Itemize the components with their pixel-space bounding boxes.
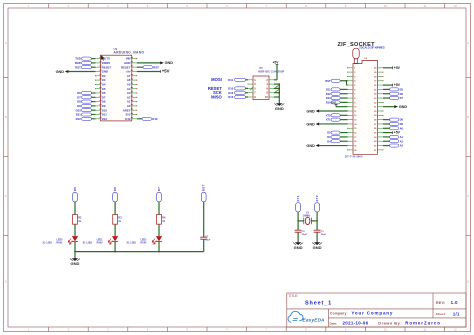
svg-text:REV:: REV: bbox=[436, 301, 446, 305]
svg-text:+5V: +5V bbox=[394, 131, 401, 135]
svg-text:D5: D5 bbox=[73, 187, 77, 192]
svg-text:ZIF-T-40-3900: ZIF-T-40-3900 bbox=[345, 156, 363, 159]
svg-text:D11: D11 bbox=[228, 78, 233, 82]
svg-text:1/1: 1/1 bbox=[453, 311, 460, 316]
svg-text:1.0: 1.0 bbox=[451, 300, 458, 305]
svg-text:U2: U2 bbox=[364, 58, 368, 60]
svg-text:EasyEDA: EasyEDA bbox=[303, 317, 326, 322]
svg-text:B: B bbox=[5, 115, 7, 119]
svg-text:+5V: +5V bbox=[331, 101, 336, 105]
svg-text:2: 2 bbox=[68, 4, 70, 8]
svg-text:10uF: 10uF bbox=[205, 239, 211, 241]
svg-text:D3: D3 bbox=[327, 135, 331, 139]
svg-text:D13: D13 bbox=[125, 117, 131, 121]
svg-text:HDR-IDC-2.54-2X5P: HDR-IDC-2.54-2X5P bbox=[258, 69, 284, 73]
svg-text:RST: RST bbox=[202, 184, 206, 191]
svg-text:+5V: +5V bbox=[394, 66, 401, 70]
svg-text:D: D bbox=[467, 279, 469, 283]
svg-text:9: 9 bbox=[345, 4, 347, 8]
svg-text:GND: GND bbox=[294, 245, 303, 250]
svg-text:1k: 1k bbox=[118, 220, 121, 223]
svg-text:11: 11 bbox=[423, 4, 426, 8]
svg-text:22pF: 22pF bbox=[302, 234, 308, 236]
svg-text:C1: C1 bbox=[205, 236, 209, 238]
svg-text:RST: RST bbox=[325, 79, 331, 83]
svg-text:+5V: +5V bbox=[162, 69, 170, 74]
svg-text:A1: A1 bbox=[400, 135, 404, 139]
svg-text:C: C bbox=[467, 194, 469, 198]
svg-text:D6: D6 bbox=[400, 92, 404, 96]
svg-text:5: 5 bbox=[186, 4, 188, 8]
svg-text:6: 6 bbox=[226, 4, 228, 8]
svg-text:LED0: LED0 bbox=[57, 240, 64, 242]
svg-text:GND: GND bbox=[165, 61, 174, 65]
svg-text:LED2: LED2 bbox=[141, 240, 148, 242]
svg-text:D2: D2 bbox=[327, 131, 331, 135]
svg-text:16MHz: 16MHz bbox=[303, 215, 311, 217]
svg-text:X1: X1 bbox=[306, 212, 310, 214]
svg-text:D12: D12 bbox=[228, 95, 233, 99]
svg-text:RomerZurco: RomerZurco bbox=[405, 320, 441, 325]
svg-text:D13: D13 bbox=[152, 117, 158, 121]
svg-text:D5: D5 bbox=[400, 87, 404, 91]
svg-text:D7: D7 bbox=[157, 187, 161, 192]
svg-text:GND: GND bbox=[306, 144, 315, 148]
svg-text:D12: D12 bbox=[326, 92, 331, 96]
svg-text:GND: GND bbox=[56, 70, 65, 74]
svg-text:2: 2 bbox=[68, 328, 70, 332]
svg-text:D11: D11 bbox=[326, 87, 331, 91]
svg-text:ARDUINO_NANO: ARDUINO_NANO bbox=[114, 51, 145, 55]
svg-text:Sheet_1: Sheet_1 bbox=[305, 301, 332, 307]
svg-text:RA42: RA42 bbox=[141, 242, 148, 245]
svg-text:7: 7 bbox=[266, 328, 268, 332]
svg-text:4: 4 bbox=[147, 4, 149, 8]
svg-text:GND: GND bbox=[71, 261, 80, 266]
svg-text:C: C bbox=[5, 194, 7, 198]
svg-text:Sheet:: Sheet: bbox=[436, 312, 447, 316]
svg-text:3: 3 bbox=[107, 328, 109, 332]
svg-text:D12: D12 bbox=[76, 117, 82, 121]
svg-text:RA42: RA42 bbox=[97, 242, 104, 245]
svg-text:D13: D13 bbox=[228, 91, 233, 95]
svg-text:Your Company: Your Company bbox=[351, 311, 393, 316]
svg-text:8: 8 bbox=[305, 328, 307, 332]
svg-text:12: 12 bbox=[454, 4, 457, 8]
svg-text:10: 10 bbox=[384, 328, 387, 332]
svg-text:+5V: +5V bbox=[394, 83, 401, 87]
svg-text:3: 3 bbox=[107, 4, 109, 8]
svg-text:TITLE:: TITLE: bbox=[288, 294, 298, 298]
svg-text:D8: D8 bbox=[400, 118, 404, 122]
svg-text:8: 8 bbox=[305, 4, 307, 8]
svg-text:1: 1 bbox=[28, 328, 30, 332]
svg-text:D13: D13 bbox=[326, 96, 331, 100]
svg-text:A: A bbox=[467, 41, 469, 45]
svg-text:C2: C2 bbox=[302, 231, 306, 233]
svg-text:R3: R3 bbox=[118, 216, 122, 219]
svg-text:A: A bbox=[5, 41, 7, 45]
svg-text:D9: D9 bbox=[400, 122, 404, 126]
svg-text:+5V: +5V bbox=[273, 60, 280, 64]
svg-text:MISO: MISO bbox=[211, 94, 222, 99]
svg-text:11: 11 bbox=[423, 328, 426, 332]
svg-text:D6: D6 bbox=[113, 187, 117, 192]
svg-text:1k: 1k bbox=[162, 220, 165, 223]
svg-text:GND: GND bbox=[306, 109, 315, 113]
svg-text:P1: P1 bbox=[260, 66, 264, 70]
svg-text:4: 4 bbox=[147, 328, 149, 332]
svg-text:C3: C3 bbox=[321, 231, 325, 233]
svg-text:D7: D7 bbox=[400, 96, 404, 100]
svg-text:A3: A3 bbox=[400, 144, 404, 148]
svg-text:R4: R4 bbox=[162, 216, 166, 219]
svg-text:7: 7 bbox=[266, 4, 268, 8]
svg-text:6: 6 bbox=[226, 328, 228, 332]
svg-text:D12: D12 bbox=[102, 117, 108, 121]
svg-text:GND: GND bbox=[306, 122, 315, 126]
svg-text:9: 9 bbox=[345, 328, 347, 332]
svg-text:RST: RST bbox=[75, 65, 81, 69]
svg-text:D10: D10 bbox=[228, 86, 233, 90]
svg-text:XT1: XT1 bbox=[326, 118, 331, 122]
svg-text:Drawn By:: Drawn By: bbox=[378, 320, 402, 325]
svg-text:2021-10-06: 2021-10-06 bbox=[343, 321, 369, 326]
svg-text:12: 12 bbox=[454, 328, 457, 332]
svg-text:22pF: 22pF bbox=[321, 234, 327, 236]
svg-text:ZOCALO ZIF 40PINES: ZOCALO ZIF 40PINES bbox=[359, 47, 385, 50]
svg-text:XT2: XT2 bbox=[326, 113, 331, 117]
svg-text:GND: GND bbox=[313, 245, 322, 250]
svg-text:B: B bbox=[467, 115, 469, 119]
svg-text:Date:: Date: bbox=[330, 321, 338, 325]
svg-text:XT2: XT2 bbox=[315, 195, 319, 202]
svg-text:GND: GND bbox=[275, 106, 284, 111]
svg-text:10: 10 bbox=[384, 4, 387, 8]
svg-text:5: 5 bbox=[186, 328, 188, 332]
svg-text:GND: GND bbox=[399, 105, 408, 109]
svg-text:XL-1.881: XL-1.881 bbox=[83, 242, 93, 244]
svg-text:D: D bbox=[5, 279, 7, 283]
svg-text:RST: RST bbox=[153, 65, 159, 69]
svg-text:XL-1.881: XL-1.881 bbox=[127, 242, 137, 244]
svg-text:XL-1.881: XL-1.881 bbox=[43, 242, 53, 244]
svg-text:A0: A0 bbox=[400, 126, 404, 130]
svg-text:1: 1 bbox=[28, 4, 30, 8]
svg-text:RA42: RA42 bbox=[57, 242, 64, 245]
svg-text:1k: 1k bbox=[78, 220, 81, 223]
svg-text:XT1: XT1 bbox=[296, 195, 300, 202]
svg-text:LED1: LED1 bbox=[97, 240, 104, 242]
svg-text:Company:: Company: bbox=[330, 312, 348, 316]
svg-text:R2: R2 bbox=[78, 216, 82, 219]
svg-text:MOSI: MOSI bbox=[211, 77, 222, 82]
svg-text:D4: D4 bbox=[327, 139, 331, 143]
svg-text:A2: A2 bbox=[400, 139, 404, 143]
